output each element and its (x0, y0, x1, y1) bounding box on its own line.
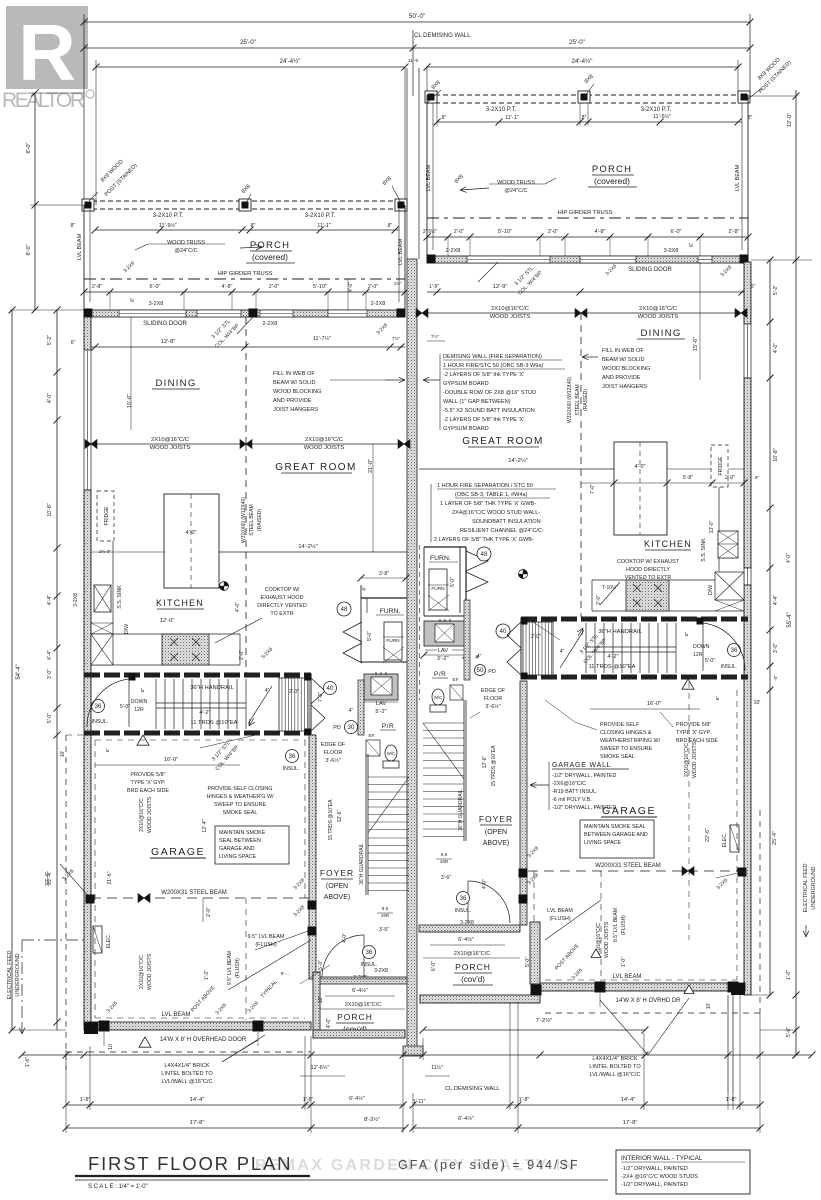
svg-text:10': 10' (318, 997, 324, 1004)
svg-text:2X10@16"C/C: 2X10@16"C/C (139, 798, 145, 832)
svg-text:9.5: 9.5 (382, 906, 389, 911)
svg-text:-1/2" DRYWALL, PAINTED: -1/2" DRYWALL, PAINTED (621, 1182, 688, 1188)
svg-text:-5.5" X2 SOUND BATT INSULATION: -5.5" X2 SOUND BATT INSULATION (443, 408, 535, 414)
svg-text:(cov'd): (cov'd) (461, 975, 485, 984)
svg-text:CL DEMISING WALL: CL DEMISING WALL (445, 1086, 500, 1092)
svg-text:(FLUSH): (FLUSH) (235, 958, 241, 978)
svg-text:WOOD JOISTS: WOOD JOISTS (304, 445, 345, 451)
svg-text:6'-0": 6'-0" (431, 961, 437, 971)
svg-text:(FLUSH): (FLUSH) (255, 942, 276, 948)
svg-text:36"H HANDRAIL: 36"H HANDRAIL (598, 629, 642, 635)
svg-text:TO EXTR: TO EXTR (270, 611, 293, 617)
svg-text:SWEEP TO ENSURE: SWEEP TO ENSURE (600, 746, 653, 752)
svg-text:15'-6": 15'-6" (127, 394, 133, 408)
svg-text:13'-0": 13'-0" (709, 520, 715, 533)
svg-text:2X10@16"C/C: 2X10@16"C/C (639, 306, 677, 312)
svg-text:4'-4": 4'-4" (773, 595, 779, 605)
svg-text:4'-8": 4'-8" (595, 229, 606, 235)
svg-text:FURN.: FURN. (430, 555, 451, 562)
svg-text:DINING: DINING (155, 378, 196, 389)
svg-text:D/W: D/W (708, 585, 714, 595)
svg-text:UNDERGROUND: UNDERGROUND (811, 866, 817, 909)
svg-text:(covered): (covered) (252, 252, 288, 262)
svg-text:16'-0": 16'-0" (164, 757, 178, 763)
svg-text:DOWN: DOWN (693, 644, 710, 650)
svg-text:5'-2": 5'-2" (437, 656, 448, 662)
svg-text:STEEL BEAM: STEEL BEAM (249, 504, 255, 535)
svg-text:PORCH: PORCH (592, 164, 632, 175)
svg-text:6': 6' (689, 243, 695, 247)
svg-text:8": 8" (442, 115, 447, 121)
svg-text:PROVIDE SELF: PROVIDE SELF (600, 722, 640, 728)
svg-text:D/W: D/W (124, 624, 130, 634)
svg-text:(OBC SB-3, TABLE 1, #W4a): (OBC SB-3, TABLE 1, #W4a) (455, 492, 528, 498)
svg-text:6'-4½": 6'-4½" (458, 936, 474, 943)
svg-text:HIP GIRDER TRUSS: HIP GIRDER TRUSS (218, 271, 273, 277)
svg-text:4': 4' (362, 587, 368, 591)
svg-text:-DOUBLE ROW OF 2X8 @16" STUD: -DOUBLE ROW OF 2X8 @16" STUD (443, 390, 536, 396)
svg-text:GREAT ROOM: GREAT ROOM (462, 436, 543, 447)
svg-text:3-2X10 P.T.: 3-2X10 P.T. (305, 213, 336, 219)
svg-text:2X10@16"C/C: 2X10@16"C/C (305, 437, 343, 443)
svg-text:3-2X10 P.T.: 3-2X10 P.T. (486, 107, 517, 113)
svg-text:17'-8": 17'-8" (623, 1120, 638, 1126)
svg-text:16R: 16R (440, 859, 449, 864)
svg-text:LVL BEAM: LVL BEAM (77, 233, 83, 260)
svg-text:2X10@16"C/C: 2X10@16"C/C (151, 437, 189, 443)
svg-text:3-2X8: 3-2X8 (374, 968, 388, 974)
svg-text:INTERIOR WALL - TYPICAL: INTERIOR WALL - TYPICAL (621, 1155, 703, 1162)
svg-text:25'-0": 25'-0" (569, 39, 585, 46)
svg-text:3'-6½": 3'-6½" (485, 703, 500, 710)
svg-text:FOYER: FOYER (479, 814, 513, 824)
svg-text:30: 30 (348, 724, 355, 731)
svg-text:2X4@16"C/C WOOD STUD WALL-: 2X4@16"C/C WOOD STUD WALL- (452, 510, 540, 516)
svg-text:FOYER: FOYER (320, 868, 354, 878)
svg-text:L4X4X1/4" BRICK: L4X4X1/4" BRICK (164, 1063, 209, 1069)
svg-text:1'-8": 1'-8" (519, 1097, 530, 1103)
svg-text:6": 6" (140, 688, 146, 693)
svg-text:11'-9: 11'-9 (408, 58, 418, 64)
svg-text:WOOD BLOCKING: WOOD BLOCKING (602, 366, 650, 372)
svg-text:16R: 16R (381, 913, 390, 918)
svg-text:12'-0": 12'-0" (160, 618, 175, 624)
svg-text:WOOD JOISTS: WOOD JOISTS (604, 921, 610, 958)
svg-text:5'-10": 5'-10" (313, 284, 327, 290)
svg-text:WALL (1" GAP BETWEEN): WALL (1" GAP BETWEEN) (443, 399, 511, 405)
svg-text:50: 50 (477, 667, 484, 674)
svg-text:14'-2½": 14'-2½" (298, 543, 318, 550)
svg-text:EDGE OF: EDGE OF (321, 742, 346, 748)
svg-text:R: R (18, 8, 76, 97)
svg-text:1'-2": 1'-2" (204, 970, 210, 980)
svg-text:P/R: P/R (434, 671, 446, 678)
svg-text:BEAM W/ SOLID: BEAM W/ SOLID (273, 380, 316, 386)
svg-text:14'W X 8' H OVERHEAD DOOR: 14'W X 8' H OVERHEAD DOOR (160, 1037, 247, 1043)
svg-text:2'-5½": 2'-5½" (423, 228, 437, 235)
svg-text:4'-0": 4'-0" (342, 933, 348, 943)
svg-text:2-2X8: 2-2X8 (371, 301, 386, 307)
svg-text:LINTEL BOLTED TO: LINTEL BOLTED TO (161, 1071, 213, 1077)
svg-text:4'-2": 4'-2" (607, 654, 618, 660)
svg-text:INSUL.: INSUL. (455, 908, 472, 914)
svg-text:7½": 7½" (392, 335, 401, 342)
svg-text:3-2X8: 3-2X8 (149, 301, 164, 307)
svg-text:5'-0": 5'-0" (47, 713, 53, 723)
svg-text:5'-2": 5'-2" (47, 335, 53, 345)
svg-text:40: 40 (500, 628, 507, 635)
svg-text:3-2X10 P.T.: 3-2X10 P.T. (641, 107, 672, 113)
svg-text:12'-6": 12'-6" (337, 809, 343, 822)
svg-text:11½": 11½" (431, 1064, 443, 1071)
svg-text:40: 40 (327, 685, 334, 692)
svg-text:4'-0": 4'-0" (482, 879, 488, 889)
svg-text:EF.: EF. (369, 733, 376, 739)
svg-text:3'-0": 3'-0" (773, 643, 779, 653)
svg-text:3'-6": 3'-6" (441, 875, 451, 881)
svg-text:4'-0": 4'-0" (635, 464, 646, 470)
svg-text:CLOSING HINGES &: CLOSING HINGES & (600, 730, 652, 736)
svg-text:2'-0": 2'-0" (206, 907, 212, 917)
svg-text:-2X4 @16"C/C WOOD STUDS: -2X4 @16"C/C WOOD STUDS (621, 1174, 698, 1180)
svg-text:22'-4": 22'-4" (47, 871, 53, 885)
svg-text:GARAGE: GARAGE (151, 846, 205, 858)
svg-text:(RAISED): (RAISED) (583, 389, 589, 411)
svg-text:AND PROVIDE: AND PROVIDE (602, 375, 641, 381)
svg-text:LVL BEAM: LVL BEAM (547, 908, 573, 914)
svg-text:2X10@16"C/C: 2X10@16"C/C (345, 1002, 382, 1008)
svg-text:GREAT ROOM: GREAT ROOM (275, 462, 356, 473)
svg-text:(RAISED): (RAISED) (257, 509, 263, 531)
svg-text:54'-4": 54'-4" (16, 664, 22, 679)
svg-text:2'-8": 2'-8" (729, 229, 740, 235)
svg-text:@24"C/C: @24"C/C (174, 248, 197, 254)
svg-text:24'-4½": 24'-4½" (280, 58, 301, 65)
svg-text:P/R: P/R (382, 723, 394, 730)
svg-text:24'-4½": 24'-4½" (572, 58, 593, 65)
svg-text:INSUL.: INSUL. (283, 766, 300, 772)
svg-text:-2 LAYERS OF 5/8" thk TYPE 'X': -2 LAYERS OF 5/8" thk TYPE 'X' (443, 417, 524, 423)
svg-text:2X10@16"C/C: 2X10@16"C/C (139, 955, 145, 989)
svg-text:6': 6' (130, 298, 136, 302)
svg-text:1'-9": 1'-9" (429, 284, 439, 290)
svg-text:50'-0": 50'-0" (409, 13, 426, 20)
svg-text:1 HOUR FIRE SEPARATION / STC 5: 1 HOUR FIRE SEPARATION / STC 50 (437, 483, 533, 489)
svg-text:DINING: DINING (640, 328, 681, 339)
svg-text:6": 6" (715, 696, 721, 701)
svg-text:10': 10' (60, 751, 66, 758)
svg-text:4'-0": 4'-0" (786, 553, 792, 563)
svg-text:17'-8": 17'-8" (190, 1120, 205, 1126)
svg-text:FILL IN WEB OF: FILL IN WEB OF (273, 371, 315, 377)
svg-text:2'-0": 2'-0" (596, 595, 602, 605)
svg-text:LVL BEAM: LVL BEAM (398, 238, 404, 265)
svg-text:4'-0": 4'-0" (348, 282, 354, 292)
svg-text:14'-4": 14'-4" (621, 1097, 636, 1103)
svg-text:2'-0": 2'-0" (289, 689, 299, 695)
svg-text:14'W X 8' H OVRHD DR: 14'W X 8' H OVRHD DR (616, 998, 682, 1004)
svg-text:4": 4" (560, 649, 565, 655)
svg-text:4': 4' (475, 655, 479, 661)
svg-text:15 TRDS @10"EA: 15 TRDS @10"EA (328, 799, 334, 841)
svg-text:10'-8": 10'-8" (47, 503, 53, 516)
svg-text:GARAGE AND: GARAGE AND (219, 846, 255, 852)
svg-text:8'-0": 8'-0" (26, 244, 32, 255)
svg-text:SMOKE SEAL: SMOKE SEAL (223, 810, 258, 816)
svg-text:5'-10": 5'-10" (498, 229, 512, 235)
svg-text:-1/2" DRYWALL, PAINTED: -1/2" DRYWALL, PAINTED (552, 805, 617, 811)
svg-text:PD: PD (333, 725, 341, 731)
svg-text:8'-3½": 8'-3½" (364, 1116, 380, 1123)
svg-text:EDGE OF: EDGE OF (481, 688, 506, 694)
svg-text:36"H HANDRAIL: 36"H HANDRAIL (190, 685, 234, 691)
svg-text:(FLUSH): (FLUSH) (621, 915, 627, 935)
svg-text:36: 36 (289, 753, 296, 760)
svg-text:EXHAUST HOOD: EXHAUST HOOD (260, 595, 303, 601)
svg-text:BEAM W/ SOLID: BEAM W/ SOLID (602, 357, 645, 363)
svg-text:LAV: LAV (438, 648, 448, 654)
svg-text:8": 8" (388, 223, 393, 229)
svg-text:JOIST HANGERS: JOIST HANGERS (273, 407, 318, 413)
svg-text:7'-0": 7'-0" (590, 484, 596, 494)
svg-text:S.S. SINK: S.S. SINK (701, 538, 707, 562)
svg-text:1 HOUR FIRE/STC 50 (OBC SB-3 W: 1 HOUR FIRE/STC 50 (OBC SB-3 W9a) (443, 363, 544, 369)
svg-text:TYPE 'X' GYP.: TYPE 'X' GYP. (676, 730, 711, 736)
svg-text:LVL/WALL @16"C/C: LVL/WALL @16"C/C (162, 1079, 213, 1085)
svg-text:12'-6": 12'-6" (482, 755, 488, 768)
svg-text:2'-0": 2'-0" (368, 284, 378, 290)
svg-text:JOIST HANGERS: JOIST HANGERS (602, 384, 647, 390)
svg-text:25'-0": 25'-0" (240, 39, 256, 46)
svg-text:FURN.: FURN. (380, 608, 401, 615)
svg-text:11'-5½": 11'-5½" (653, 113, 671, 120)
svg-text:4'-4": 4'-4" (47, 650, 53, 660)
svg-text:W200X31 STEEL BEAM: W200X31 STEEL BEAM (161, 890, 226, 896)
svg-text:12'-8": 12'-8" (161, 339, 176, 345)
svg-text:5'-0": 5'-0" (525, 957, 531, 967)
svg-text:9.5" LVL BEAM: 9.5" LVL BEAM (248, 934, 285, 940)
svg-text:12R: 12R (693, 652, 703, 658)
svg-text:HOOD DIRECTLY: HOOD DIRECTLY (626, 567, 670, 573)
svg-text:CL DEMISING WALL: CL DEMISING WALL (414, 33, 471, 39)
svg-text:-1/2" DRYWALL, PAINTED: -1/2" DRYWALL, PAINTED (621, 1166, 688, 1172)
svg-text:12'-4": 12'-4" (202, 819, 208, 832)
svg-text:36: 36 (366, 949, 373, 956)
svg-text:5'-8": 5'-8" (683, 475, 693, 481)
svg-text:FIRST FLOOR PLAN: FIRST FLOOR PLAN (88, 1153, 292, 1174)
svg-text:5'-2": 5'-2" (773, 285, 779, 295)
svg-text:KITCHEN: KITCHEN (644, 539, 692, 549)
svg-text:DIRECTLY VENTED: DIRECTLY VENTED (257, 603, 307, 609)
svg-text:2'-8": 2'-8" (92, 284, 102, 290)
svg-text:10': 10' (706, 1003, 712, 1010)
svg-text:BRD EACH SIDE: BRD EACH SIDE (127, 788, 169, 794)
svg-text:6'-4½": 6'-4½" (349, 1095, 365, 1102)
svg-text:3'-5": 3'-5" (379, 927, 389, 933)
svg-text:GFA (per side) = 944/SF: GFA (per side) = 944/SF (398, 1158, 578, 1172)
svg-text:11 TRDS @10"EA: 11 TRDS @10"EA (190, 720, 237, 726)
svg-text:S C A L E : 1/4" = 1'-0": S C A L E : 1/4" = 1'-0" (88, 1184, 148, 1190)
svg-text:UNDERGROUND: UNDERGROUND (15, 953, 21, 996)
svg-text:15'-6": 15'-6" (693, 337, 699, 351)
svg-text:REALTOR: REALTOR (2, 89, 85, 112)
svg-text:LVL BEAM: LVL BEAM (613, 974, 642, 980)
svg-text:12'-0": 12'-0" (787, 113, 793, 127)
svg-text:ABOVE): ABOVE) (324, 894, 350, 901)
svg-text:FURN: FURN (386, 638, 400, 644)
svg-text:36"H GUARDRAIL: 36"H GUARDRAIL (359, 843, 365, 885)
svg-text:COOKTOP W/: COOKTOP W/ (265, 587, 300, 593)
svg-text:T-10½": T-10½" (602, 584, 618, 591)
svg-text:MAINTAIN SMOKE: MAINTAIN SMOKE (219, 830, 266, 836)
svg-text:WOOD JOISTS: WOOD JOISTS (150, 445, 191, 451)
svg-text:@24"C/C: @24"C/C (504, 188, 527, 194)
svg-text:COOKTOP W/ EXHAUST: COOKTOP W/ EXHAUST (617, 559, 680, 565)
svg-text:6": 6" (105, 748, 111, 753)
svg-text:10': 10' (754, 700, 761, 706)
svg-text:2-2X8: 2-2X8 (263, 321, 278, 327)
svg-text:22'-6": 22'-6" (705, 828, 711, 842)
svg-text:12'-9": 12'-9" (493, 284, 508, 290)
svg-text:14'-4": 14'-4" (190, 1097, 205, 1103)
svg-text:(FLUSH): (FLUSH) (549, 916, 570, 922)
svg-text:3-2X8: 3-2X8 (73, 593, 79, 607)
svg-text:SOUNDBATT INSULATION: SOUNDBATT INSULATION (472, 519, 541, 525)
svg-text:11 TRDS @10"EA: 11 TRDS @10"EA (588, 664, 635, 670)
svg-text:1'-6": 1'-6" (25, 1057, 31, 1067)
svg-text:2½-0": 2½-0" (99, 548, 111, 554)
svg-text:ELECTRICAL FEED: ELECTRICAL FEED (803, 863, 809, 912)
svg-text:1'-8": 1'-8" (80, 1097, 91, 1103)
svg-text:LINTEL BOLTED TO: LINTEL BOLTED TO (589, 1064, 641, 1070)
svg-text:ELEC.: ELEC. (106, 934, 112, 948)
svg-text:55'-4": 55'-4" (787, 612, 793, 627)
svg-text:9.5" LVL BEAM: 9.5" LVL BEAM (613, 908, 619, 942)
svg-text:DEMISING WALL (FIRE SEPARATION: DEMISING WALL (FIRE SEPARATION) (443, 354, 542, 360)
svg-text:1'-8": 1'-8" (303, 1097, 314, 1103)
svg-text:4'-8": 4'-8" (222, 284, 233, 290)
svg-text:FURN: FURN (431, 586, 445, 592)
svg-text:4'-0": 4'-0" (326, 1018, 332, 1028)
svg-text:SEAL BETWEEN: SEAL BETWEEN (219, 838, 261, 844)
svg-text:6'-0": 6'-0" (150, 284, 161, 290)
svg-text:6'-0": 6'-0" (671, 229, 682, 235)
svg-text:1'-0": 1'-0" (786, 970, 792, 980)
svg-text:8": 8" (582, 115, 587, 121)
svg-text:S.S. SINK: S.S. SINK (117, 585, 123, 609)
svg-text:4": 4" (265, 688, 270, 694)
svg-text:HINGES & WEATHER'G W/: HINGES & WEATHER'G W/ (206, 794, 274, 800)
svg-text:PROVIDE 5/8": PROVIDE 5/8" (130, 772, 165, 778)
svg-text:36: 36 (95, 703, 102, 710)
svg-text:6": 6" (755, 475, 760, 481)
svg-text:W200X31 STEEL BEAM: W200X31 STEEL BEAM (595, 863, 660, 869)
svg-text:MAINTAIN SMOKE SEAL: MAINTAIN SMOKE SEAL (584, 824, 646, 830)
svg-text:WEATHERSTRIPING W/: WEATHERSTRIPING W/ (600, 738, 661, 744)
svg-text:2'-0": 2'-0" (239, 650, 245, 660)
svg-text:WOOD TRUSS: WOOD TRUSS (167, 240, 205, 246)
svg-text:WOOD BLOCKING: WOOD BLOCKING (273, 389, 321, 395)
svg-text:ABOVE): ABOVE) (483, 840, 509, 847)
svg-text:WOOD JOISTS: WOOD JOISTS (490, 314, 531, 320)
svg-text:36: 36 (460, 895, 467, 902)
svg-text:-1/2" DRYWALL, PAINTED: -1/2" DRYWALL, PAINTED (552, 773, 617, 779)
svg-text:1'-0": 1'-0" (621, 957, 627, 967)
svg-text:(OPEN: (OPEN (326, 883, 348, 890)
svg-text:48: 48 (481, 551, 488, 558)
svg-text:W/C: W/C (434, 695, 443, 700)
svg-text:15 TRDS @10"EA: 15 TRDS @10"EA (491, 745, 497, 787)
svg-text:GARAGE WALL: GARAGE WALL (552, 762, 612, 769)
svg-text:ELEC.: ELEC. (722, 833, 728, 847)
svg-text:5'-6": 5'-6" (786, 1027, 792, 1037)
svg-text:2'-0": 2'-0" (269, 284, 279, 290)
svg-text:LVL BEAM: LVL BEAM (162, 1012, 191, 1018)
svg-text:GYPSUM BOARD: GYPSUM BOARD (443, 426, 489, 432)
svg-text:2 LAYERS OF 5/8" THK TYPE 'X': 2 LAYERS OF 5/8" THK TYPE 'X' GWB- (434, 537, 534, 543)
svg-text:SMOKE SEAL: SMOKE SEAL (600, 754, 635, 760)
svg-text:5'-2": 5'-2" (375, 709, 386, 715)
svg-text:4'-0": 4'-0" (47, 393, 53, 403)
svg-text:8": 8" (748, 115, 753, 121)
svg-text:2½": 2½" (394, 280, 402, 286)
svg-text:PORCH: PORCH (455, 962, 491, 972)
svg-text:-2 LAYERS OF 5/8" thk TYPE 'X': -2 LAYERS OF 5/8" thk TYPE 'X' (443, 372, 524, 378)
svg-text:6'-4½": 6'-4½" (352, 987, 368, 994)
svg-text:11'-1": 11'-1" (317, 223, 331, 229)
svg-text:DOWN: DOWN (131, 699, 148, 705)
svg-text:W310X60 (W12X40): W310X60 (W12X40) (567, 377, 573, 423)
svg-text:11'-7½": 11'-7½" (313, 335, 331, 342)
svg-text:5'-0": 5'-0" (318, 960, 324, 970)
svg-text:-2X6@16"C/C: -2X6@16"C/C (552, 781, 586, 787)
svg-text:16'-0": 16'-0" (647, 701, 661, 707)
svg-text:3'-8": 3'-8" (379, 571, 389, 577)
svg-text:FILL IN WEB OF: FILL IN WEB OF (602, 348, 644, 354)
svg-text:FRIDGE: FRIDGE (104, 506, 110, 526)
svg-text:HIP GIRDER TRUSS: HIP GIRDER TRUSS (558, 210, 613, 216)
svg-text:9'-...: 9'-... (281, 971, 290, 976)
svg-text:(OPEN: (OPEN (485, 829, 507, 836)
svg-text:48: 48 (341, 606, 348, 613)
svg-text:BETWEEN GARAGE AND: BETWEEN GARAGE AND (584, 832, 648, 838)
svg-text:PROVIDE 5/8": PROVIDE 5/8" (676, 722, 711, 728)
svg-text:6": 6" (684, 632, 690, 637)
svg-text:L4X4X1/4" BRICK: L4X4X1/4" BRICK (592, 1056, 637, 1062)
svg-text:3-2X10 P.T.: 3-2X10 P.T. (153, 213, 184, 219)
svg-text:1'-8": 1'-8" (726, 1097, 737, 1103)
svg-text:12'-6½": 12'-6½" (311, 1064, 330, 1071)
svg-text:4'-0": 4'-0" (773, 343, 779, 353)
svg-text:LVL BEAM: LVL BEAM (426, 164, 432, 191)
svg-text:8'-0": 8'-0" (26, 142, 32, 153)
svg-text:PD: PD (488, 669, 496, 675)
svg-text:11'-9½": 11'-9½" (159, 222, 177, 229)
svg-text:(covered): (covered) (594, 176, 630, 186)
svg-text:25'-4": 25'-4" (772, 831, 778, 845)
svg-text:4'-2": 4'-2" (199, 710, 210, 716)
svg-text:TYPE 'X' GYP.: TYPE 'X' GYP. (131, 780, 166, 786)
svg-text:PORCH: PORCH (250, 240, 290, 251)
svg-text:8": 8" (251, 223, 256, 229)
svg-text:2'-0": 2'-0" (548, 229, 558, 235)
svg-text:4'-4": 4'-4" (47, 595, 53, 605)
svg-text:2'-0": 2'-0" (454, 229, 464, 235)
svg-text:36: 36 (731, 647, 738, 654)
svg-text:EF.: EF. (453, 677, 460, 683)
svg-text:3'-6½": 3'-6½" (325, 757, 340, 764)
svg-text:INSUL.: INSUL. (92, 719, 109, 725)
